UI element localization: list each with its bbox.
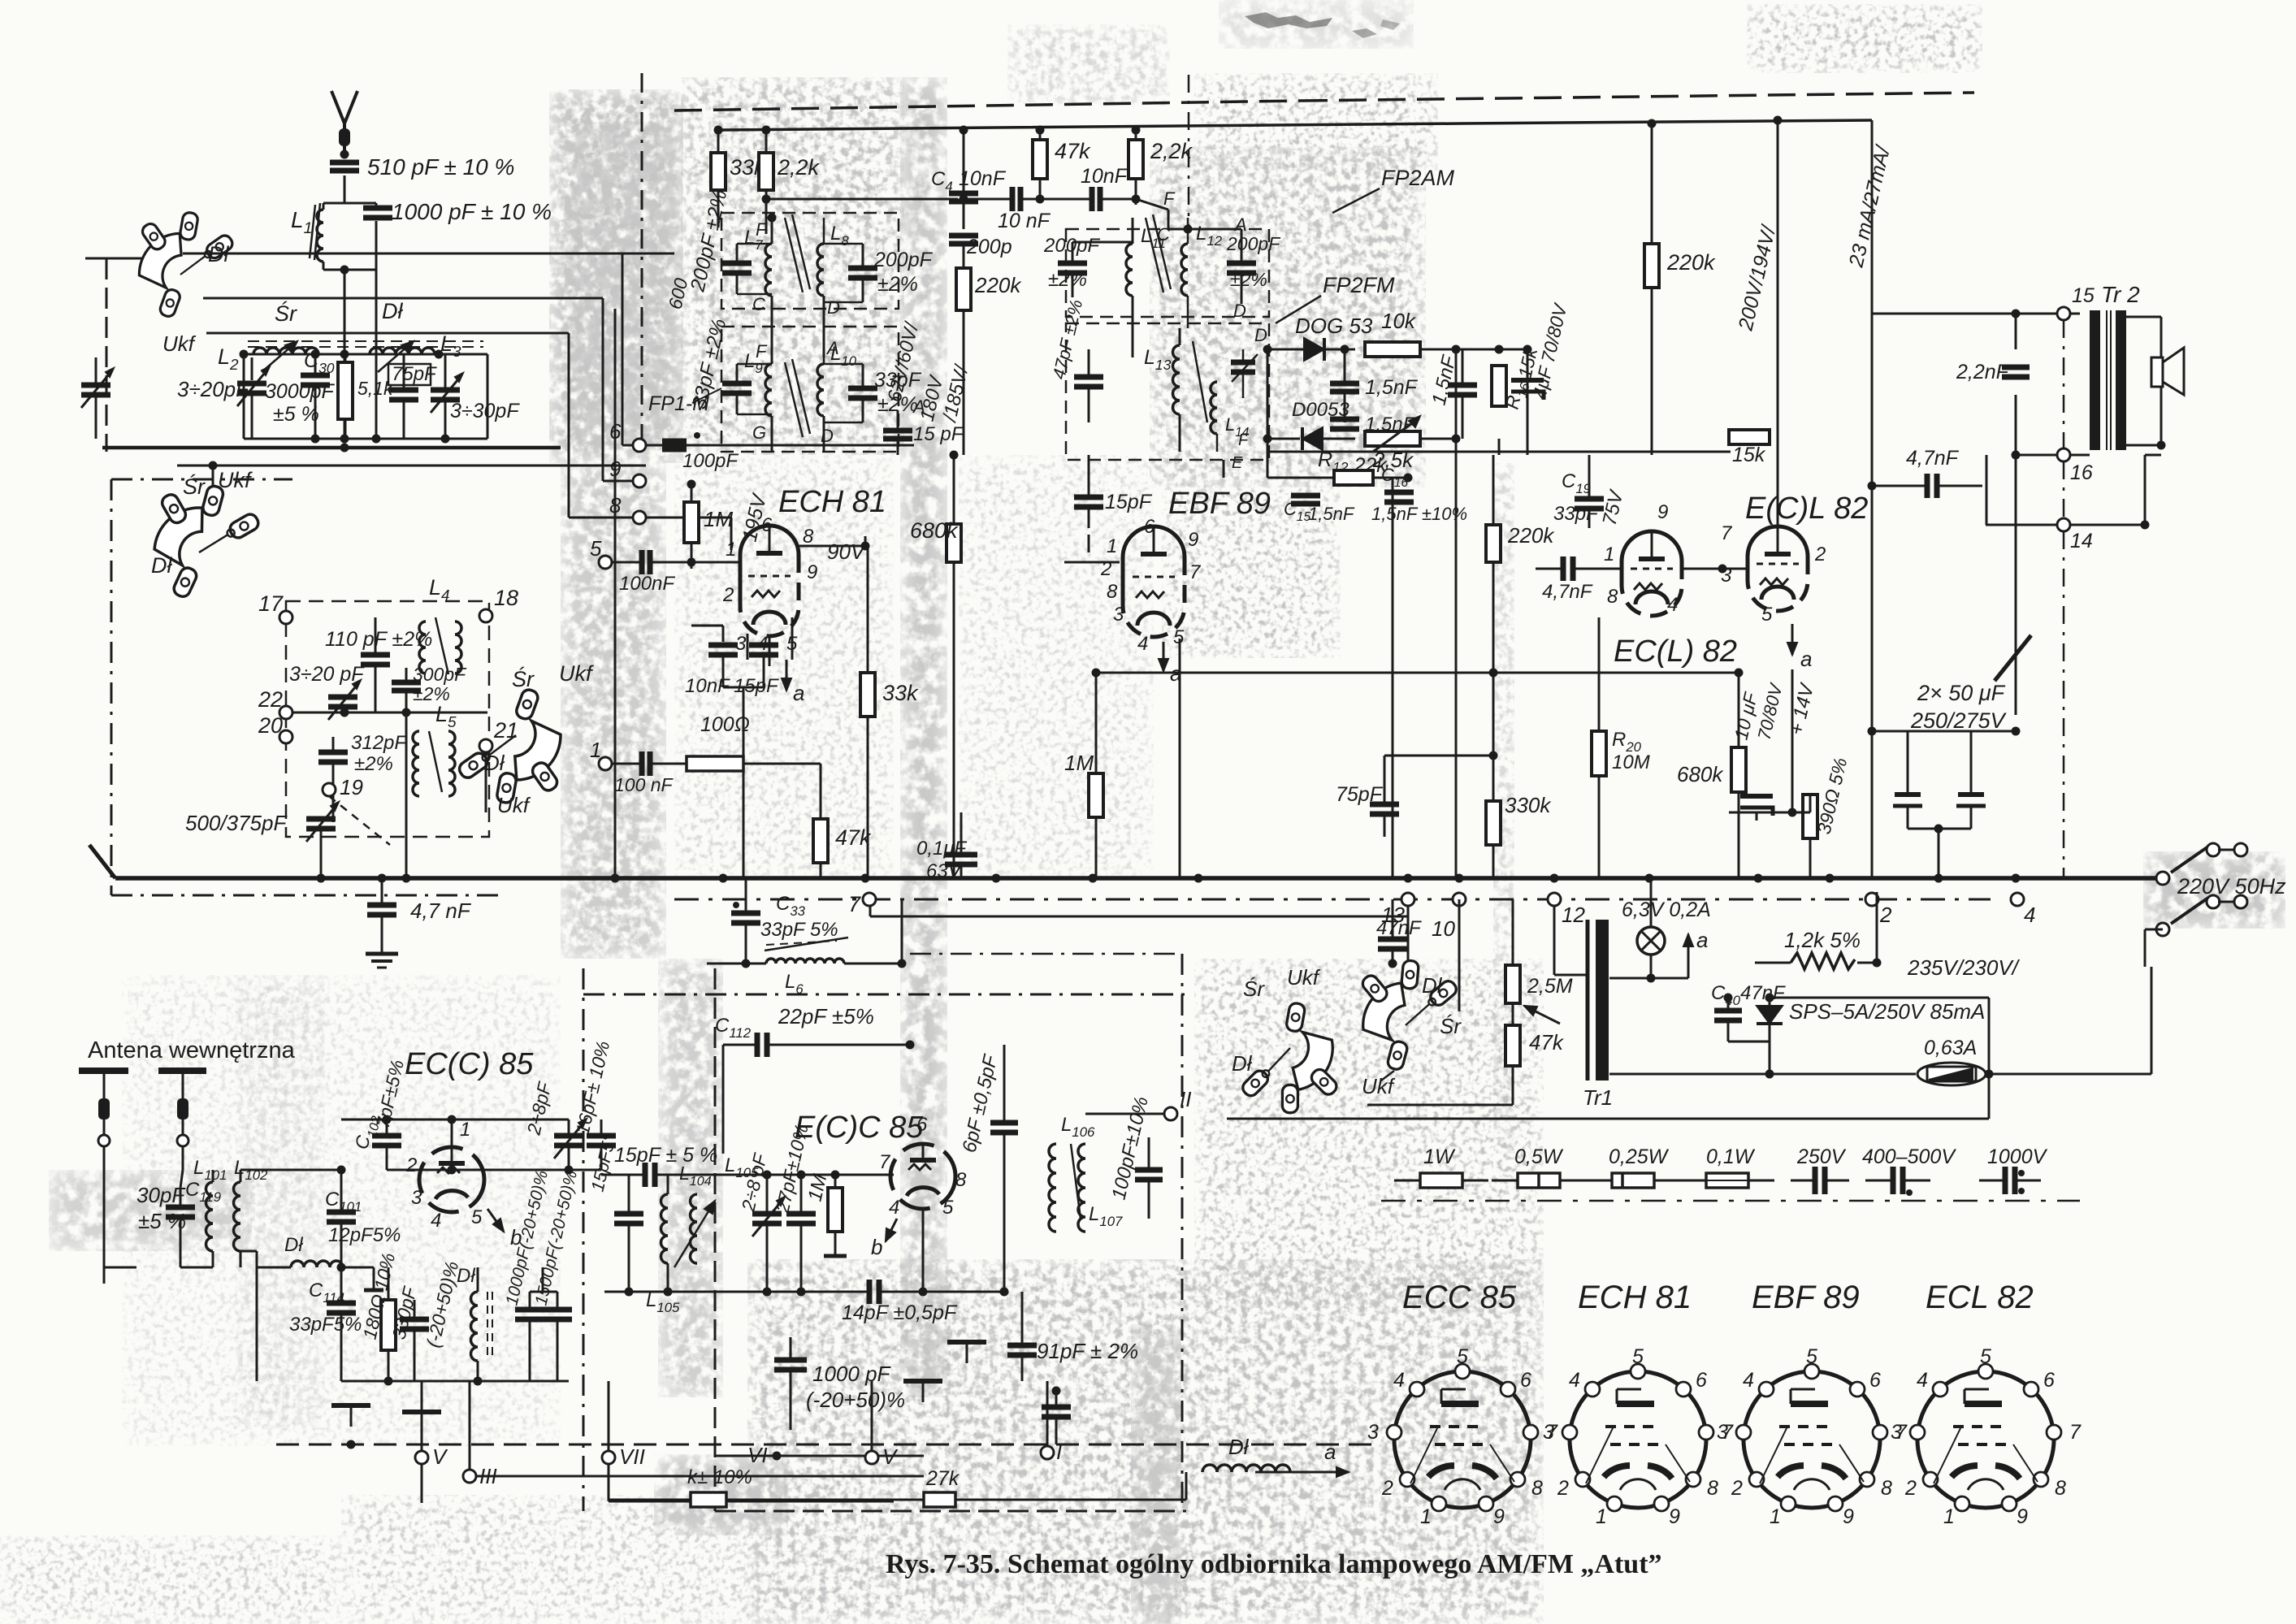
svg-text:4: 4 (2024, 903, 2035, 927)
wire L2 row (240, 350, 488, 359)
svg-text:200pF: 200pF (1043, 235, 1100, 257)
diode D0053 (1267, 427, 1355, 450)
label FP2AM (1332, 166, 1455, 213)
scan noise band left of ECH81 upper (549, 89, 683, 463)
tube ECH81 (740, 526, 799, 636)
svg-text:2× 50 μF: 2× 50 μF (1917, 681, 2006, 705)
wire 90V right (864, 536, 867, 546)
svg-text:33pF 5%: 33pF 5% (760, 919, 838, 941)
cap C112 22pF (715, 1004, 915, 1057)
svg-text:Rys. 7-35. Schemat ogólny odbi: Rys. 7-35. Schemat ogólny odbiornika lam… (886, 1549, 1662, 1579)
svg-text:7: 7 (848, 892, 861, 916)
cap 200pF L8 (824, 244, 877, 302)
rotary switch S3 (439, 682, 578, 819)
rotary switch S2 (141, 473, 274, 604)
resistor 220k ecl (1486, 455, 1555, 801)
svg-text:6: 6 (2043, 1369, 2055, 1392)
legend resistor 0.5W (1492, 1145, 1586, 1188)
top dashed line (674, 93, 1974, 110)
svg-text:47k: 47k (835, 825, 872, 850)
svg-text:a: a (793, 681, 804, 705)
cap 27pF conv (771, 1122, 816, 1292)
svg-text:2: 2 (722, 584, 734, 606)
terminal 16 (2012, 448, 2093, 484)
svg-text:F: F (1238, 431, 1250, 449)
svg-text:10k: 10k (1381, 309, 1417, 333)
tube base ECH 81 (1543, 1280, 1734, 1528)
coil L14 (1211, 382, 1249, 452)
coil L107 (1071, 1144, 1123, 1232)
svg-text:ECH 81: ECH 81 (1578, 1280, 1692, 1315)
svg-text:22: 22 (258, 687, 283, 712)
svg-text:Tr1: Tr1 (1583, 1085, 1613, 1110)
terminal 14 (2057, 455, 2161, 552)
scan noise patch bottom left (122, 975, 561, 1446)
svg-text:±2%: ±2% (1048, 269, 1087, 291)
scan noise patch top centre (681, 77, 904, 455)
cap 15pF mid (883, 410, 964, 455)
cap 47pF (1049, 297, 1103, 422)
svg-text:8: 8 (1107, 581, 1118, 603)
wire conv mid row (601, 1171, 894, 1180)
label Dl S2 (151, 553, 172, 578)
scan noise patch mid right streak (1493, 463, 1514, 1154)
svg-text:A: A (825, 338, 839, 358)
resistor 15k det (1729, 430, 1770, 466)
svg-text:0,5W: 0,5W (1514, 1145, 1564, 1168)
svg-text:E(C)C 85: E(C)C 85 (795, 1111, 924, 1145)
svg-text:4: 4 (889, 1197, 899, 1219)
svg-text:6: 6 (1869, 1369, 1881, 1392)
svg-text:91pF ± 2%: 91pF ± 2% (1037, 1339, 1138, 1363)
bus stub 12 (1553, 906, 1556, 972)
cap C40 (1711, 982, 1786, 1020)
resistor 680k ecl (1677, 669, 1746, 878)
svg-text:14: 14 (2070, 530, 2093, 552)
terminal 9 (603, 457, 646, 487)
coil L4a (419, 617, 461, 674)
oscillator box dashes (286, 601, 489, 837)
coil L5 (413, 731, 455, 796)
dash line 1174 (910, 953, 1182, 955)
svg-text:9: 9 (609, 457, 621, 481)
terminal 4 (2011, 893, 2035, 927)
svg-text:3: 3 (411, 1187, 422, 1209)
svg-text:47k: 47k (1529, 1030, 1565, 1055)
tube ECL82 triode (1622, 531, 1682, 616)
nested corner B (203, 298, 603, 481)
svg-text:4: 4 (1569, 1369, 1580, 1392)
label 180V 185V (916, 362, 973, 425)
svg-text:Antena wewnętrzna: Antena wewnętrzna (88, 1037, 296, 1063)
resistor 47k ps (1505, 1025, 1565, 1066)
label EC(C) 85 (405, 1047, 534, 1081)
svg-text:110 pF ±2%: 110 pF ±2% (325, 628, 432, 651)
variable capacitor 500/375pF (306, 802, 339, 878)
label ECH 81 (778, 485, 886, 519)
resistor 2.2k top (1129, 139, 1193, 179)
cap 47nF ps (1376, 899, 1422, 968)
svg-text:2: 2 (1731, 1477, 1743, 1500)
transformer Tr2 (2090, 310, 2126, 450)
label antena (88, 1037, 296, 1063)
cap 91pF (1007, 1292, 1138, 1381)
fm block right edge (1181, 954, 1184, 1511)
wire grid ech (691, 561, 740, 564)
cap 2.2nF (1956, 361, 2030, 383)
svg-text:1000 pF: 1000 pF (812, 1362, 892, 1386)
wire gnd stub (364, 1267, 383, 1290)
svg-text:10nF: 10nF (959, 167, 1007, 190)
label A mid (912, 396, 925, 417)
svg-text:9: 9 (807, 561, 817, 583)
svg-text:±2%: ±2% (354, 753, 393, 775)
scan noise big bottom centre (747, 1259, 1544, 1624)
legend resistor 0.1W (1680, 1145, 1774, 1188)
svg-text:220k: 220k (1507, 523, 1555, 548)
wire Fdown (1136, 188, 1176, 229)
coil L8 (817, 218, 849, 357)
wire 6 row (646, 444, 914, 447)
resistor 2.5M (1505, 965, 1573, 1024)
wire conv row (341, 1267, 569, 1386)
wire bottom misc (1185, 1472, 1188, 1500)
svg-text:5: 5 (1761, 604, 1773, 626)
svg-text:Dł: Dł (382, 299, 403, 323)
label L103 (587, 1132, 620, 1193)
svg-text:8: 8 (955, 1169, 967, 1191)
coil L101 (193, 1157, 227, 1267)
label 500/375pF (185, 811, 288, 835)
scan noise mid sparse b (674, 455, 894, 877)
label C119 (185, 1179, 221, 1205)
resistor 1M ebf (1064, 669, 1103, 879)
svg-text:3÷30pF: 3÷30pF (450, 400, 520, 422)
svg-text:a: a (1324, 1440, 1336, 1464)
cap 15pF5 conv (614, 1175, 643, 1292)
scan noise top mid blobs (1219, 0, 1414, 49)
svg-text:Dł: Dł (284, 1234, 303, 1256)
label E(C)C 85 (795, 1111, 924, 1145)
cap 100nF t5 (612, 550, 696, 595)
wire ebf left (1064, 535, 1120, 562)
svg-text:2: 2 (405, 1154, 417, 1176)
resistor 330k (1486, 793, 1552, 878)
terminal 21 (479, 718, 518, 752)
svg-text:9: 9 (2017, 1505, 2028, 1528)
cap L7 (722, 244, 772, 294)
label Ukf S3 (559, 661, 594, 686)
wire L10 down (823, 422, 825, 452)
label 75V (1599, 487, 1628, 528)
dash bus below (674, 899, 1991, 901)
wire fp2fm down (1223, 460, 1225, 478)
svg-text:3÷20pF: 3÷20pF (177, 377, 250, 401)
cap 1000pF conv (502, 1168, 552, 1319)
capacitor 510pF (330, 150, 359, 171)
svg-text:FP2FM: FP2FM (1323, 273, 1395, 297)
rotary switch S1 (123, 197, 251, 324)
svg-text:8: 8 (1881, 1477, 1892, 1500)
cap 200pF L11 (1043, 235, 1100, 297)
svg-text:Śr: Śr (512, 665, 535, 691)
svg-text:D: D (1233, 301, 1246, 321)
svg-text:3000pF: 3000pF (265, 380, 336, 403)
label Sr S2 (183, 473, 206, 499)
svg-text:100Ω: 100Ω (700, 713, 750, 736)
svg-text:7: 7 (1721, 522, 1733, 544)
label 23mA 27mA (1844, 142, 1895, 271)
svg-text:47nF: 47nF (1740, 982, 1786, 1004)
label Sr S4 (1243, 977, 1265, 1001)
svg-text:4,7nF: 4,7nF (1906, 447, 1960, 470)
scan noise bottom strip left (341, 1495, 764, 1624)
svg-text:1W: 1W (1423, 1145, 1456, 1168)
wire osc mid (286, 708, 487, 717)
label 3-20pF (177, 377, 250, 401)
cap C102 7pF (351, 1058, 409, 1170)
wire tr2 top (1872, 313, 2080, 315)
terminal VI (715, 1443, 924, 1467)
svg-text:Dł: Dł (457, 1265, 475, 1287)
svg-text:a: a (1696, 928, 1708, 952)
antenna symbol (331, 91, 357, 150)
label Dl S3 (484, 751, 505, 775)
svg-text:±2%: ±2% (1230, 269, 1267, 290)
scan noise band through middle (900, 77, 947, 1397)
ecap 50uF b (1956, 731, 1986, 829)
svg-text:F: F (756, 219, 768, 240)
svg-text:4: 4 (1393, 1369, 1405, 1392)
label 312pF (351, 732, 407, 775)
label +14V (1786, 681, 1819, 738)
core slant L13 (1193, 341, 1207, 422)
svg-text:ECL 82: ECL 82 (1926, 1280, 2034, 1315)
resistor 47k ech (813, 764, 872, 878)
svg-text:1: 1 (590, 738, 601, 762)
coil L10 (817, 343, 857, 452)
scan noise left band boost (565, 122, 682, 447)
cap 1.5nF a (1330, 345, 1419, 423)
terminal V (415, 1381, 448, 1503)
cap C33 (731, 878, 838, 941)
svg-text:F: F (1163, 188, 1176, 209)
svg-text:2: 2 (1381, 1477, 1393, 1500)
svg-text:250V: 250V (1796, 1145, 1847, 1168)
capacitor 312pF (318, 737, 348, 822)
svg-text:EC(L) 82: EC(L) 82 (1614, 634, 1737, 669)
svg-text:C: C (1157, 224, 1170, 245)
wire return 1377 (1227, 1118, 1989, 1120)
svg-text:Dł: Dł (484, 751, 505, 775)
svg-text:Dł: Dł (1422, 973, 1443, 998)
cap 16pF (572, 1039, 616, 1170)
fuse 0.63A (1609, 967, 2151, 1085)
terminal II (1085, 1087, 1191, 1120)
pins ecc85 left (405, 1119, 483, 1232)
wire 14V (1788, 669, 1797, 817)
svg-text:4: 4 (1743, 1369, 1754, 1392)
label 33k (730, 155, 766, 180)
terminal 10 (1432, 893, 1466, 941)
svg-text:Ukf: Ukf (218, 468, 253, 492)
label EC(L) 82 (1614, 634, 1737, 669)
svg-text:15k: 15k (1732, 444, 1766, 466)
svg-text:510 pF ± 10 %: 510 pF ± 10 % (367, 154, 514, 180)
svg-text:A: A (912, 396, 925, 417)
tube ECC85 mid (890, 1144, 955, 1209)
legend resistor 1W (1394, 1145, 1488, 1188)
label DOG53 (1295, 314, 1373, 338)
svg-text:8: 8 (1707, 1477, 1718, 1500)
terminal 17 (258, 591, 292, 624)
scan noise bottom mid band (1131, 1324, 1181, 1624)
arrow a ech (782, 660, 804, 705)
wire L102 out (240, 1170, 341, 1381)
svg-text:2: 2 (1557, 1477, 1569, 1500)
cap 100pF conv (1135, 1137, 1163, 1219)
svg-text:22pF ±5%: 22pF ±5% (778, 1004, 874, 1029)
svg-text:75pF: 75pF (392, 363, 437, 385)
wire det vert c (1498, 439, 1501, 455)
svg-text:4,7 nF: 4,7 nF (410, 899, 472, 923)
svg-text:4: 4 (1667, 594, 1678, 616)
mains switch (2145, 843, 2247, 967)
trimmer cap fm (1231, 349, 1258, 398)
svg-text:16: 16 (2070, 461, 2093, 484)
label L4 (429, 575, 450, 604)
label 75pF (392, 363, 437, 385)
svg-text:5: 5 (590, 536, 602, 561)
wires ech bottom (747, 617, 792, 666)
label 62V 60V (884, 319, 924, 405)
svg-text:12: 12 (1562, 903, 1585, 927)
legend cap 400-500V (1862, 1145, 1956, 1196)
svg-text:Dł: Dł (1228, 1435, 1250, 1459)
coil Dl out (1202, 1435, 1349, 1477)
tube EBF89 (1123, 526, 1185, 637)
scan noise patch FP2 area (1150, 146, 1426, 487)
svg-text:12pF5%: 12pF5% (328, 1224, 401, 1246)
cap 15pF ech (723, 645, 779, 878)
svg-text:1: 1 (1596, 1505, 1607, 1528)
terminal 1 (590, 738, 612, 770)
letter F E (1232, 431, 1250, 472)
row y245 (762, 195, 959, 204)
svg-text:Śr: Śr (183, 473, 206, 499)
label C33 (776, 893, 806, 919)
label 235V (1765, 955, 2021, 1119)
letter A D fp2 (1157, 214, 1247, 321)
dash rail 2540 (2063, 320, 2065, 878)
svg-text:3: 3 (1113, 604, 1124, 626)
dash frame conv box (715, 968, 1186, 1511)
resistor 27k (872, 1467, 1186, 1507)
svg-text:ECH 81: ECH 81 (778, 485, 886, 519)
svg-text:100nF: 100nF (619, 573, 675, 595)
svg-text:VII: VII (619, 1444, 645, 1469)
label FP2FM (1276, 273, 1395, 323)
label 200pF rot (686, 188, 731, 294)
svg-text:2,2k: 2,2k (1150, 139, 1193, 163)
tube base EBF 89 (1717, 1280, 1908, 1528)
svg-text:5: 5 (471, 1206, 483, 1228)
svg-text:2: 2 (1879, 903, 1892, 927)
bus am bottom (102, 444, 561, 453)
svg-text:27k: 27k (925, 1467, 960, 1490)
terminal V mid (865, 1381, 899, 1469)
wire ecc mid down (922, 1209, 925, 1292)
coil Dl 2 (457, 1265, 492, 1381)
svg-text:3: 3 (1891, 1421, 1902, 1444)
svg-text:10: 10 (1432, 916, 1455, 941)
cap C4 (931, 126, 1007, 230)
pin numbers EBF89 (1100, 516, 1202, 655)
svg-text:D: D (821, 426, 834, 446)
cap 0.1uF (916, 812, 977, 882)
cap 6pF (990, 1045, 1018, 1292)
ground main (366, 941, 398, 968)
terminal 20 (258, 713, 292, 743)
svg-text:1,5nF: 1,5nF (1365, 376, 1419, 399)
svg-text:6: 6 (609, 419, 622, 444)
ink smudge top centre (1245, 12, 1400, 38)
top rail (721, 120, 1872, 130)
rotary switch S4 (1215, 994, 1356, 1133)
terminal 2 (1865, 893, 1892, 927)
var cap 2-8pF left (522, 1079, 587, 1170)
speaker (2126, 317, 2184, 450)
scan noise band below bus left (658, 959, 723, 1397)
svg-text:E: E (1232, 454, 1243, 472)
svg-text:EBF 89: EBF 89 (1752, 1280, 1860, 1315)
terminal 7 (848, 892, 1408, 916)
tube base ECL 82 (1891, 1280, 2082, 1528)
resistor 1M ech (684, 480, 733, 569)
resistor R20 10M (1592, 617, 1650, 878)
capacitor 110pF (361, 617, 390, 712)
terminal 6 (609, 419, 646, 452)
caption (886, 1549, 1662, 1579)
pin numbers ecl pentode (1721, 522, 1826, 626)
svg-text:7: 7 (2069, 1421, 2082, 1444)
svg-text:220k: 220k (974, 273, 1022, 297)
resistor 10k (1365, 309, 1532, 357)
label Ukf S1 (162, 331, 197, 356)
wire plate ECH81 (799, 542, 870, 551)
cap out (1042, 1387, 1071, 1445)
svg-text:15 pF: 15 pF (913, 423, 964, 445)
variable capacitor 3-20pF osc (328, 680, 361, 720)
diode DOG53 (1267, 338, 1355, 361)
capacitor 1000pF (363, 208, 392, 218)
svg-text:5: 5 (942, 1197, 954, 1219)
nested corner A (183, 253, 622, 445)
cap 1000pF b (774, 1337, 905, 1430)
svg-text:a: a (1800, 647, 1812, 671)
resistor 2.2k if (759, 126, 773, 235)
label EBF 89 (1168, 487, 1271, 521)
svg-text:3: 3 (1717, 1421, 1728, 1444)
diode SPS (1728, 994, 1985, 1042)
nested corner C (206, 333, 569, 518)
svg-text:±5 %: ±5 % (273, 403, 319, 426)
terminal 13 (1381, 893, 1414, 927)
letter F C D (752, 219, 840, 318)
svg-text:6,3V 0,2A: 6,3V 0,2A (1622, 899, 1711, 921)
svg-text:4,7nF: 4,7nF (1542, 581, 1593, 603)
svg-text:6: 6 (1520, 1369, 1531, 1392)
